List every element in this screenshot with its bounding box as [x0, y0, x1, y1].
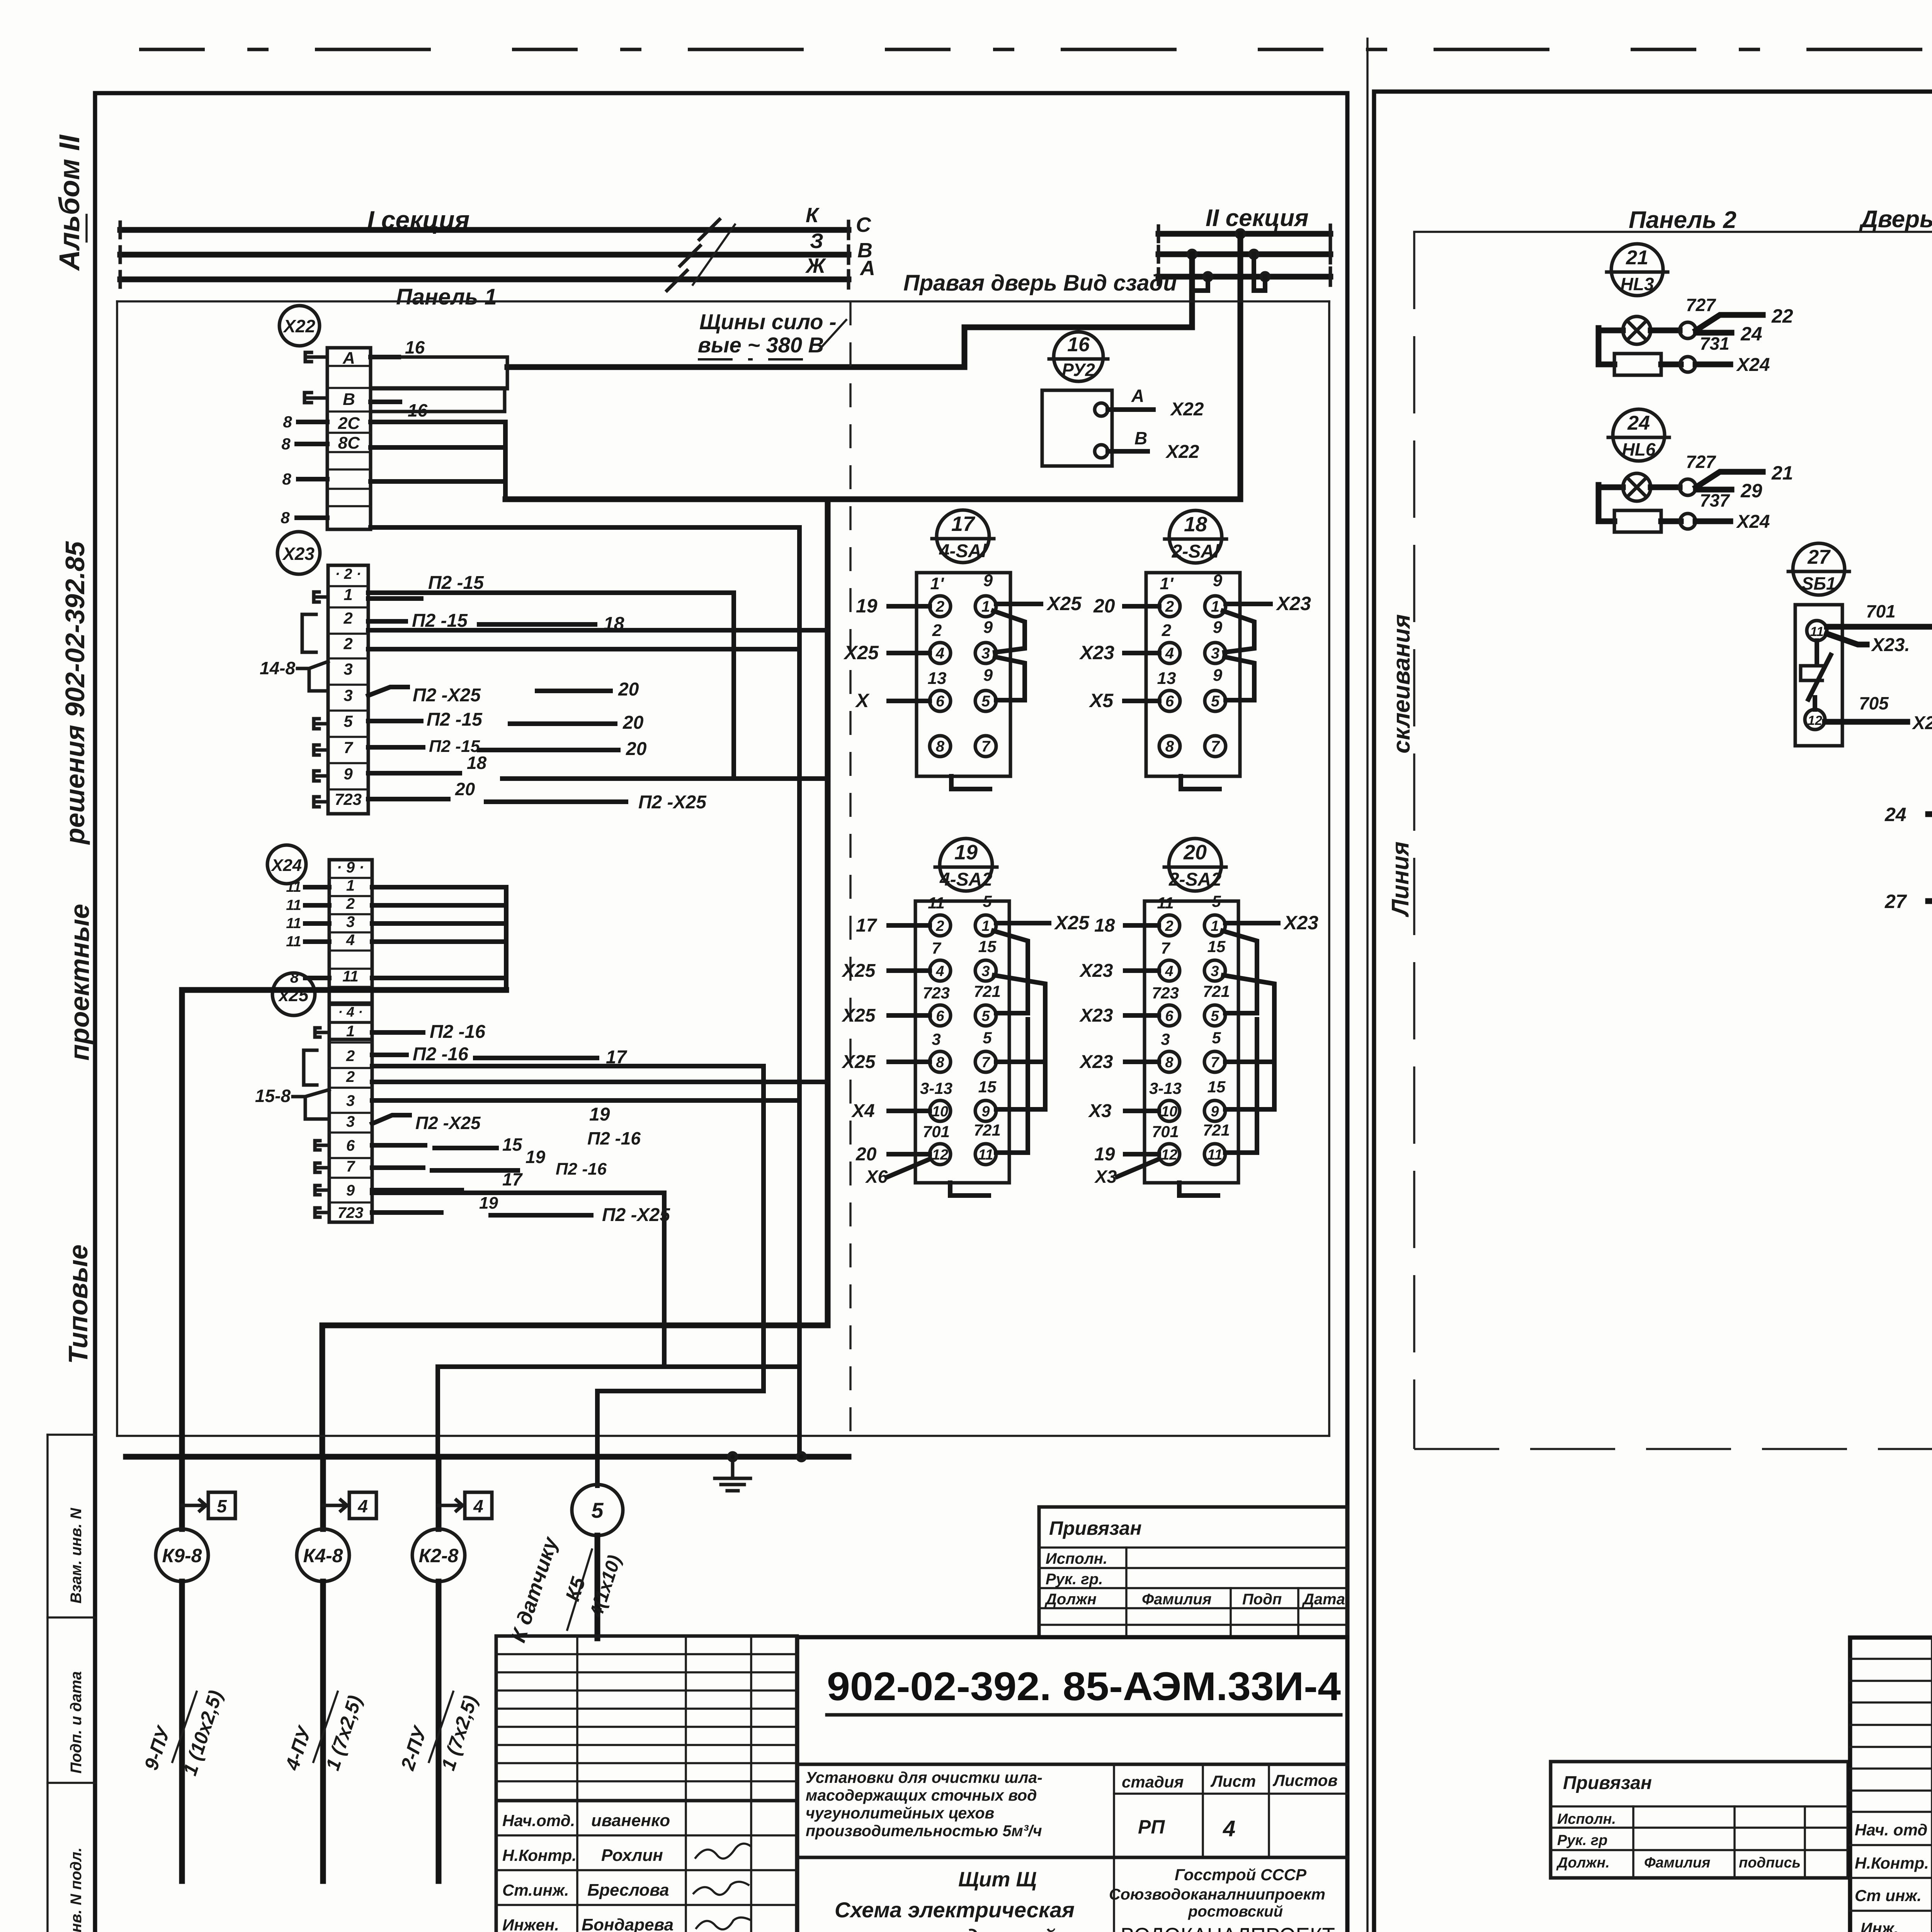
- svg-text:721: 721: [1203, 1121, 1230, 1139]
- svg-text:масодержащих сточных вод: масодержащих сточных вод: [806, 1786, 1037, 1804]
- stamp: signature rows: [496, 1801, 797, 1932]
- bus break slash marks: [693, 224, 735, 285]
- X23 left stubs: [314, 592, 319, 602]
- svg-text:2: 2: [346, 1068, 355, 1085]
- svg-text:3: 3: [1211, 645, 1219, 662]
- svg-text:5: 5: [981, 693, 990, 710]
- svg-text:15: 15: [1207, 1078, 1226, 1096]
- sheet ref box: [323, 1504, 347, 1507]
- svg-text:· 4 ·: · 4 ·: [338, 1004, 363, 1020]
- svg-text:2: 2: [1165, 918, 1173, 934]
- svg-text:Х23: Х23: [1079, 961, 1113, 981]
- connector X24 terminal block: [329, 860, 372, 1039]
- connector X23 terminal block: [328, 565, 368, 814]
- РУ2 pin B: [1095, 445, 1108, 458]
- svg-text:ростовский: ростовский: [1188, 1903, 1283, 1920]
- svg-text:2: 2: [1165, 598, 1174, 615]
- svg-text:П2 -16: П2 -16: [587, 1128, 641, 1148]
- svg-text:5: 5: [217, 1496, 227, 1516]
- svg-text:РП: РП: [1138, 1816, 1165, 1838]
- svg-text:2-SА2: 2-SА2: [1168, 869, 1221, 890]
- svg-text:13: 13: [1157, 669, 1176, 688]
- lamp HL3 (pos 21) lamp symbol: [1623, 316, 1651, 344]
- svg-text:Х25: Х25: [841, 961, 876, 981]
- svg-text:5: 5: [981, 1008, 990, 1024]
- switch 2-SA1 (pos 18) jumper 1-3-5: [1223, 611, 1254, 652]
- svg-text:4: 4: [935, 963, 944, 980]
- svg-text:8: 8: [1165, 1054, 1173, 1071]
- pushbutton SB1 (pos 27) pin 11 wires: [1827, 624, 1932, 630]
- switch 4-SA2 (pos 19) ground tail: [950, 1183, 989, 1196]
- bus node: [729, 1453, 736, 1461]
- sheet 4 frame: [95, 93, 1347, 1932]
- bus C (I section): [120, 227, 849, 233]
- bus A (I section): [120, 277, 849, 282]
- svg-text:20: 20: [622, 713, 644, 733]
- switch 4-SA2 (pos 19) left leads: [889, 923, 930, 928]
- svg-text:Дверь .: Дверь .: [1859, 206, 1932, 233]
- connector X23 label circle: [277, 532, 320, 574]
- svg-text:1': 1': [930, 574, 944, 593]
- svg-text:2: 2: [932, 621, 942, 640]
- lamp HL6 (pos 24) resistor: [1614, 510, 1661, 532]
- svg-text:Ж: Ж: [805, 254, 827, 277]
- bus B (I section): [120, 252, 849, 258]
- svg-text:3: 3: [344, 660, 352, 678]
- svg-text:Х22: Х22: [1170, 399, 1204, 420]
- svg-text:П2 -Х25: П2 -Х25: [415, 1113, 481, 1133]
- svg-text:11: 11: [978, 1147, 993, 1163]
- svg-text:П2 -Х25: П2 -Х25: [638, 792, 707, 813]
- svg-text:НL6: НL6: [1622, 439, 1656, 459]
- svg-text:Х23: Х23: [282, 544, 315, 564]
- lamp HL6 (pos 24) terminal circle: [1680, 479, 1696, 495]
- svg-text:9: 9: [983, 666, 993, 685]
- X23 row wires and labels: [368, 596, 421, 601]
- top cut dash-dot line: [139, 48, 1932, 51]
- lamp HL3 (pos 21) wire to terminal: [1651, 328, 1680, 333]
- svg-text:1: 1: [344, 585, 352, 604]
- svg-text:Подп. и дата: Подп. и дата: [68, 1671, 85, 1774]
- svg-text:решения 902-02-392.85: решения 902-02-392.85: [60, 541, 90, 845]
- switch 4-SA1 (pos 17) body: [917, 573, 1010, 776]
- svg-text:17: 17: [502, 1169, 523, 1189]
- svg-text:· 2 ·: · 2 ·: [335, 566, 361, 582]
- svg-text:Х: Х: [855, 690, 870, 711]
- svg-text:подпись: подпись: [1739, 1855, 1801, 1871]
- svg-text:11: 11: [1157, 894, 1174, 912]
- svg-text:Бондарева: Бондарева: [582, 1915, 673, 1932]
- svg-text:22: 22: [1771, 305, 1793, 327]
- svg-text:10: 10: [932, 1104, 948, 1120]
- svg-text:902-02-392. 85-АЭМ.33И-4: 902-02-392. 85-АЭМ.33И-4: [827, 1664, 1341, 1709]
- ground symbol: [731, 1461, 735, 1478]
- lamp HL6 (pos 24) fork lower branch: [1696, 487, 1731, 493]
- svg-text:15-8: 15-8: [255, 1086, 291, 1106]
- svg-text:701: 701: [1866, 601, 1896, 621]
- svg-text:19: 19: [954, 841, 978, 864]
- svg-text:8: 8: [1165, 738, 1174, 755]
- svg-text:Х3: Х3: [1088, 1101, 1112, 1121]
- bottom equipotential bus: [126, 1454, 849, 1460]
- svg-text:Ст инж.: Ст инж.: [1855, 1886, 1922, 1905]
- X25 row 2 long wire to K5 drop: [372, 1066, 764, 1486]
- svg-text:19: 19: [1094, 1144, 1115, 1165]
- left margin bottom boxes: [46, 1435, 49, 1932]
- svg-text:П2 -16: П2 -16: [556, 1160, 607, 1179]
- X22 spare wire to K2-8 drop: [371, 527, 799, 1457]
- svg-text:20: 20: [618, 679, 639, 700]
- svg-text:705: 705: [1859, 693, 1889, 713]
- switch 4-SA2 (pos 19) pins 6/5: [930, 1005, 951, 1026]
- switch 2-SA2 (pos 20) label: [1164, 838, 1226, 891]
- svg-text:15: 15: [978, 1078, 997, 1096]
- svg-text:Щит Щ: Щит Щ: [958, 1868, 1037, 1891]
- svg-text:Лист: Лист: [1210, 1772, 1256, 1790]
- svg-text:9: 9: [981, 1104, 990, 1120]
- svg-text:Фамилия: Фамилия: [1644, 1855, 1710, 1871]
- svg-text:5: 5: [1212, 1029, 1221, 1047]
- switch 4-SA2 (pos 19) pins 10/9: [930, 1100, 951, 1121]
- svg-text:Х24: Х24: [1736, 355, 1770, 375]
- X23 row 2 long wire: [368, 628, 828, 633]
- switch 2-SA2 (pos 20) body: [1145, 901, 1238, 1183]
- svg-text:К9-8: К9-8: [162, 1545, 202, 1566]
- svg-text:Х4: Х4: [851, 1101, 875, 1121]
- bus A (II section): [1158, 274, 1330, 280]
- lamp HL3 (pos 21) supply bracket: [1599, 328, 1614, 364]
- svg-text:721: 721: [974, 982, 1001, 1000]
- switch 4-SA2 (pos 19) body: [915, 901, 1009, 1183]
- svg-text:9: 9: [346, 1182, 355, 1199]
- svg-text:Взам. инв. N: Взам. инв. N: [68, 1508, 85, 1604]
- switch 2-SA1 (pos 18) pins 2/1: [1159, 596, 1180, 617]
- cable K2-8: [436, 1457, 442, 1529]
- svg-text:склеивания: склеивания: [1388, 614, 1415, 754]
- wire phase A feed: bus B node to X22 row A: [507, 254, 1192, 367]
- svg-text:12: 12: [932, 1147, 948, 1163]
- SA left lead 24/727: [1928, 811, 1932, 817]
- svg-text:8: 8: [281, 435, 291, 453]
- title block: privyazan table (sheet 4): [1039, 1507, 1347, 1637]
- pushbutton SB1 (pos 27) pin 11: [1807, 621, 1827, 641]
- svg-text:2-SАl: 2-SАl: [1172, 541, 1220, 562]
- svg-text:7: 7: [344, 738, 353, 757]
- svg-text:Госстрой СССР: Госстрой СССР: [1175, 1866, 1307, 1884]
- panel/door separator dashed: [849, 301, 852, 1436]
- svg-text:9: 9: [1213, 618, 1223, 637]
- svg-text:7: 7: [932, 939, 941, 957]
- svg-text:7: 7: [981, 1054, 990, 1071]
- svg-text:Х24: Х24: [1736, 512, 1770, 532]
- connector X25 terminal block: [329, 1003, 372, 1222]
- stamp signatures squiggles: [696, 1844, 751, 1859]
- svg-text:727: 727: [1686, 295, 1716, 315]
- svg-text:А: А: [1131, 386, 1144, 406]
- svg-text:П2 -15: П2 -15: [427, 709, 483, 730]
- switch 4-SA1 (pos 17) label: [932, 510, 994, 563]
- stamp stage/sheet cells: [1113, 1764, 1115, 1932]
- svg-text:11: 11: [286, 915, 301, 932]
- svg-text:9: 9: [983, 571, 993, 590]
- svg-text:1: 1: [346, 877, 355, 894]
- svg-text:2: 2: [1162, 621, 1172, 640]
- svg-text:27: 27: [1807, 546, 1831, 568]
- svg-text:4: 4: [1165, 963, 1173, 980]
- switch 2-SA2 (pos 20) pins 8/7: [1159, 1051, 1180, 1072]
- svg-text:11: 11: [286, 879, 301, 895]
- svg-text:15: 15: [1207, 937, 1226, 956]
- svg-text:Типовые: Типовые: [63, 1245, 93, 1364]
- X22 row A wire and cable rectangle: [371, 355, 399, 359]
- svg-text:II секция: II секция: [1206, 205, 1309, 231]
- svg-text:Х6: Х6: [865, 1167, 888, 1187]
- svg-text:Х23.: Х23.: [1871, 635, 1910, 655]
- svg-text:7: 7: [1161, 939, 1170, 957]
- switch 4-SA2 (pos 19) jumpers: [993, 931, 1028, 1013]
- svg-text:7: 7: [981, 738, 991, 755]
- svg-text:5: 5: [344, 712, 353, 730]
- svg-text:РУ2: РУ2: [1062, 360, 1095, 380]
- svg-text:Листов: Листов: [1272, 1771, 1338, 1789]
- svg-text:Х23: Х23: [1079, 642, 1114, 663]
- svg-text:Х22: Х22: [1165, 442, 1199, 462]
- svg-text:Подп: Подп: [1242, 1591, 1282, 1608]
- sheet 5 privyazan table: [1551, 1762, 1848, 1878]
- cable K5 to sensor: [572, 1485, 623, 1536]
- lamp HL3 (pos 21) terminal circle: [1680, 322, 1696, 338]
- switch 4-SA2 (pos 19) diagonal lead &#1061;6: [888, 1160, 929, 1177]
- svg-text:2С: 2С: [338, 414, 360, 433]
- jumper hook bus nodes right: [1254, 254, 1265, 291]
- svg-text:1: 1: [981, 598, 990, 615]
- svg-text:6: 6: [1165, 693, 1174, 710]
- svg-text:НL3: НL3: [1621, 274, 1654, 294]
- cable circle &#1050;9-8: [156, 1529, 208, 1582]
- svg-text:17: 17: [856, 915, 878, 936]
- svg-text:Х25: Х25: [1046, 593, 1082, 614]
- svg-text:3: 3: [1161, 1030, 1170, 1048]
- svg-text:Привязан: Привязан: [1563, 1773, 1652, 1793]
- switch 2-SA1 (pos 18) body: [1146, 573, 1240, 776]
- svg-text:Привязан: Привязан: [1049, 1517, 1142, 1539]
- switch 2-SA2 (pos 20) pins 2/1: [1159, 915, 1180, 936]
- svg-text:П2 -Х25: П2 -Х25: [413, 685, 481, 706]
- svg-text:П2 -16: П2 -16: [430, 1022, 485, 1042]
- switch 4-SA2 (pos 19) label: [935, 838, 997, 891]
- svg-text:731: 731: [1700, 333, 1730, 354]
- svg-text:3: 3: [1211, 963, 1219, 980]
- svg-text:7: 7: [1211, 1054, 1219, 1071]
- lamp HL6 (pos 24) wire to terminal: [1651, 485, 1680, 490]
- branch to К4-8 drop: [322, 499, 828, 1457]
- svg-text:Должн.: Должн.: [1556, 1855, 1610, 1871]
- lamp HL3 (pos 21) fork upper branch: [1696, 315, 1763, 330]
- svg-text:А: А: [342, 349, 355, 367]
- svg-text:К2-8: К2-8: [418, 1545, 458, 1566]
- sheet 5 signature rows: [1850, 1811, 1932, 1813]
- sheet 5 inner panel box: [1414, 231, 1932, 233]
- switch 2-SA1 (pos 18) pins 4/3: [1159, 643, 1180, 663]
- switch 2-SA1 (pos 18) pin1 external wire: [1226, 602, 1270, 606]
- svg-text:7: 7: [346, 1158, 355, 1175]
- svg-text:В: В: [1134, 428, 1147, 448]
- svg-text:721: 721: [974, 1121, 1001, 1139]
- lamp HL3 (pos 21) fork lower branch: [1696, 330, 1731, 336]
- pushbutton SB1 (pos 27) pin 12: [1805, 709, 1825, 730]
- svg-text:3-13: 3-13: [1149, 1079, 1182, 1097]
- svg-text:Х25: Х25: [1054, 912, 1090, 934]
- title block main stamp (sheet 4): [797, 1637, 1347, 1932]
- svg-text:9: 9: [344, 765, 353, 783]
- svg-text:Х23: Х23: [1283, 912, 1318, 934]
- svg-text:5: 5: [591, 1498, 604, 1522]
- svg-text:1: 1: [346, 1023, 355, 1040]
- svg-text:Х25: Х25: [841, 1005, 876, 1026]
- lamp HL6 (pos 24) supply bracket: [1599, 485, 1614, 521]
- sheet ref box: [439, 1504, 463, 1507]
- svg-text:6: 6: [1165, 1008, 1173, 1024]
- svg-text:17: 17: [951, 512, 976, 536]
- svg-text:11: 11: [286, 897, 301, 913]
- svg-text:К: К: [806, 204, 820, 227]
- sheet 5 stamp change-log grid: [1850, 1658, 1932, 1660]
- svg-text:11: 11: [928, 894, 945, 912]
- svg-text:В: В: [343, 390, 355, 409]
- svg-text:Фамилия: Фамилия: [1142, 1591, 1211, 1608]
- svg-text:4: 4: [1223, 1816, 1235, 1841]
- svg-text:737: 737: [1700, 490, 1730, 510]
- svg-text:3: 3: [346, 913, 355, 930]
- svg-text:Х24: Х24: [270, 856, 302, 875]
- switch 2-SA1 (pos 18) pins 8/7: [1159, 736, 1180, 757]
- svg-text:Панель 1: Панель 1: [396, 284, 497, 310]
- svg-text:21: 21: [1771, 462, 1793, 484]
- switch 2-SA2 (pos 20) diagonal lead &#1061;3: [1117, 1160, 1158, 1177]
- svg-text:12: 12: [1161, 1147, 1177, 1163]
- connector X25 label circle: [272, 973, 315, 1015]
- svg-text:20: 20: [626, 739, 647, 759]
- switch 4-SA2 (pos 19) pins 4/3: [930, 960, 951, 981]
- svg-text:А: А: [859, 257, 875, 280]
- switch 2-SA2 (pos 20) jumpers: [1223, 931, 1257, 1013]
- switch 4-SA1 (pos 17) ground tail: [951, 776, 990, 789]
- svg-text:20: 20: [1183, 841, 1207, 864]
- svg-text:Линия: Линия: [1387, 842, 1414, 917]
- svg-text:20: 20: [855, 1144, 877, 1165]
- X22 left stubs: [305, 352, 311, 362]
- sheet 5 main stamp: [1850, 1638, 1932, 1932]
- pushbutton SB1 (pos 27) body: [1795, 605, 1842, 746]
- door enclosure right edge: [1328, 301, 1330, 1436]
- svg-text:Панель 2: Панель 2: [1629, 207, 1736, 233]
- svg-text:11: 11: [1810, 624, 1823, 639]
- svg-text:10: 10: [1161, 1104, 1177, 1120]
- svg-text:Установки для очистки шла-: Установки для очистки шла-: [806, 1769, 1043, 1786]
- switch 2-SA2 (pos 20) pins 12/11: [1159, 1144, 1180, 1165]
- svg-text:21: 21: [1626, 247, 1648, 269]
- switch 2-SA1 (pos 18) pins 6/5: [1159, 690, 1180, 711]
- switch 2-SA1 (pos 18) ground tail: [1181, 776, 1219, 789]
- sheet 5 frame: [1374, 92, 1932, 1932]
- svg-text:701: 701: [1152, 1122, 1179, 1141]
- svg-text:Альбом II: Альбом II: [53, 134, 85, 271]
- svg-text:ВОДОКАНАЛПРОЕКТ: ВОДОКАНАЛПРОЕКТ: [1121, 1923, 1335, 1932]
- svg-text:6: 6: [936, 1008, 944, 1024]
- svg-text:стадия: стадия: [1122, 1773, 1184, 1791]
- pushbutton SB1 (pos 27) pushbutton contact: [1815, 641, 1819, 663]
- svg-text:5: 5: [1212, 892, 1221, 910]
- X25 row 3 long wire: [372, 1098, 799, 1103]
- svg-text:SБ1: SБ1: [1802, 573, 1836, 594]
- svg-text:18: 18: [467, 753, 487, 773]
- svg-text:3: 3: [981, 963, 990, 980]
- svg-text:Рук. гр.: Рук. гр.: [1046, 1571, 1103, 1588]
- wire phase C feed: bus C node down across to X22 ladder: [505, 234, 1240, 499]
- svg-text:1: 1: [981, 918, 990, 934]
- svg-text:1: 1: [1211, 918, 1219, 934]
- switch 4-SA2 (pos 19) pins 2/1: [930, 915, 951, 936]
- svg-text:2: 2: [935, 918, 944, 934]
- lamp HL3 (pos 21) terminal circle 2: [1680, 357, 1696, 372]
- svg-text:24: 24: [1884, 804, 1906, 825]
- bus junction nodes: [1236, 230, 1244, 238]
- switch 4-SA1 (pos 17) pins 8/7: [930, 736, 951, 757]
- svg-text:Рук. гр: Рук. гр: [1557, 1832, 1607, 1849]
- svg-text:чугунолитейных цехов: чугунолитейных цехов: [806, 1804, 994, 1822]
- svg-text:вые ~ 380 В: вые ~ 380 В: [698, 333, 824, 357]
- svg-text:Должн: Должн: [1044, 1591, 1097, 1608]
- svg-text:Нач.отд.: Нач.отд.: [502, 1811, 575, 1830]
- svg-text:8: 8: [282, 470, 291, 488]
- svg-text:П2 -Х25: П2 -Х25: [602, 1205, 670, 1225]
- device РУ2 box: [1042, 390, 1112, 466]
- wire К9-8 feed from X24 ladder: [182, 990, 506, 1457]
- svg-text:Х23: Х23: [1079, 1052, 1113, 1072]
- SA left lead 27/701: [1928, 898, 1932, 904]
- svg-text:701: 701: [923, 1122, 950, 1141]
- svg-text:11: 11: [286, 934, 301, 950]
- svg-text:8: 8: [281, 509, 290, 527]
- switch 2-SA1 (pos 18) left leads: [1124, 604, 1159, 609]
- svg-text:16: 16: [1067, 333, 1090, 356]
- svg-text:Ст.инж.: Ст.инж.: [502, 1881, 569, 1899]
- svg-text:6: 6: [346, 1137, 355, 1154]
- svg-text:19: 19: [526, 1147, 546, 1167]
- cable circle &#1050;4-8: [297, 1529, 349, 1582]
- switch 4-SA1 (pos 17) pins 4/3: [930, 643, 951, 663]
- cable K9-8: [179, 1457, 185, 1529]
- switch 2-SA2 (pos 20) pin1 external wire: [1225, 921, 1278, 925]
- svg-text:· 9 ·: · 9 ·: [337, 859, 364, 876]
- svg-text:2: 2: [346, 895, 355, 912]
- cable K4-8: [320, 1457, 326, 1529]
- svg-text:К4-8: К4-8: [303, 1545, 343, 1566]
- bus C (II section): [1158, 231, 1330, 237]
- svg-text:12: 12: [1808, 713, 1822, 728]
- svg-text:2: 2: [343, 609, 352, 627]
- svg-text:18: 18: [1184, 513, 1207, 536]
- lamp HL6 (pos 24) lamp symbol: [1623, 473, 1651, 501]
- X24 ladder vertical: [504, 887, 509, 990]
- lamp HL3 (pos 21) resistor: [1614, 354, 1661, 375]
- svg-text:8: 8: [936, 1054, 944, 1071]
- svg-text:19: 19: [856, 595, 878, 617]
- svg-text:5: 5: [1211, 1008, 1219, 1024]
- switch 2-SA2 (pos 20) pins 10/9: [1159, 1100, 1180, 1121]
- svg-text:20: 20: [455, 779, 475, 799]
- svg-text:6: 6: [936, 693, 945, 710]
